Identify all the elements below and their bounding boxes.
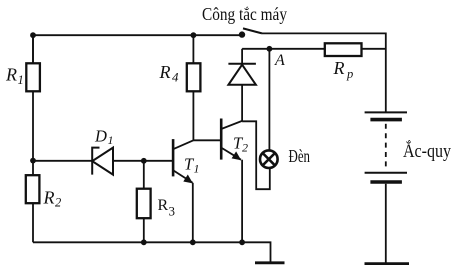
wire R1 top lead	[32, 35, 34, 63]
wire diode top lead to switch-node wire	[241, 49, 243, 64]
wire R4 bottom to T1 collector	[192, 91, 194, 140]
battery Ắc-quy cell 1	[365, 112, 407, 119]
svg-text:1: 1	[18, 73, 24, 87]
wire node-A rail	[242, 48, 325, 50]
label R4	[159, 62, 180, 85]
ground	[255, 261, 285, 264]
label Rp	[333, 58, 354, 81]
battery bottom terminal bar	[365, 262, 410, 265]
wire lamp bottom to T2 collector node	[242, 121, 270, 189]
label Công tắc máy	[202, 4, 287, 24]
label R3	[158, 197, 176, 219]
lamp Đèn	[260, 150, 278, 168]
node R3 top junction	[141, 158, 147, 164]
label A	[274, 52, 285, 69]
node A junction	[267, 46, 273, 52]
svg-text:Ắc-quy: Ắc-quy	[403, 140, 451, 162]
label T1	[184, 155, 200, 176]
label Đèn	[289, 146, 311, 166]
svg-text:2: 2	[242, 141, 248, 155]
node top-left junction	[30, 32, 36, 38]
transistor T1	[173, 139, 193, 183]
label R2	[43, 188, 62, 210]
svg-text:3: 3	[169, 204, 176, 219]
svg-text:R: R	[158, 197, 169, 214]
svg-text:R: R	[5, 65, 17, 85]
svg-text:1: 1	[108, 133, 114, 147]
node bottom rail T2 emitter	[239, 239, 245, 245]
node bottom rail T1 emitter	[190, 239, 196, 245]
svg-text:A: A	[274, 52, 285, 69]
svg-text:R: R	[43, 188, 55, 208]
resistor Rp	[325, 43, 362, 56]
wire T2 emitter down to bottom rail	[241, 160, 243, 243]
label Ắc-quy	[403, 140, 451, 162]
wire left rail	[32, 35, 34, 242]
wire R3 bottom lead	[143, 218, 145, 242]
battery dashed middle	[385, 124, 387, 170]
svg-text:4: 4	[172, 70, 179, 85]
wire T1 emitter down to bottom rail	[192, 183, 194, 243]
resistor R4	[187, 63, 201, 91]
wire top rail	[33, 34, 242, 36]
zener diode D1	[92, 148, 113, 175]
svg-text:Công tắc máy: Công tắc máy	[202, 4, 287, 24]
wire T1 collector to T2 base	[193, 139, 221, 141]
wire bottom rail	[33, 242, 271, 261]
resistor R3	[137, 189, 151, 219]
svg-text:1: 1	[194, 161, 200, 175]
svg-text:R: R	[159, 62, 171, 82]
label D1	[94, 127, 114, 147]
label R1	[5, 65, 24, 88]
svg-text:2: 2	[55, 196, 61, 210]
svg-text:D: D	[94, 127, 107, 146]
diode D2 (vertical, above T2)	[228, 64, 256, 85]
svg-text:Đèn: Đèn	[289, 146, 311, 166]
node R4 top junction	[191, 32, 197, 38]
wire R3 top lead	[143, 161, 145, 189]
wire D1 row: left rail to D1, D1 to T1 base	[33, 160, 173, 162]
label T2	[233, 134, 248, 155]
svg-text:R: R	[333, 58, 345, 78]
node bottom rail R3	[141, 239, 147, 245]
wire Rp right to battery vertical	[362, 48, 386, 50]
wire T2 collector up to diode	[241, 85, 243, 121]
wire switch to battery top	[262, 33, 386, 112]
resistor R1	[26, 63, 40, 91]
wire R4 top lead	[192, 35, 194, 63]
node left rail / D1 wire junction	[30, 158, 36, 164]
wire battery bottom lead	[385, 184, 387, 263]
resistor R2	[26, 175, 40, 203]
svg-text:p: p	[346, 67, 353, 81]
transistor T2	[221, 119, 242, 161]
wire node A down to lamp	[268, 49, 270, 150]
switch Công tắc máy	[239, 28, 262, 37]
battery cell 2	[365, 173, 407, 182]
